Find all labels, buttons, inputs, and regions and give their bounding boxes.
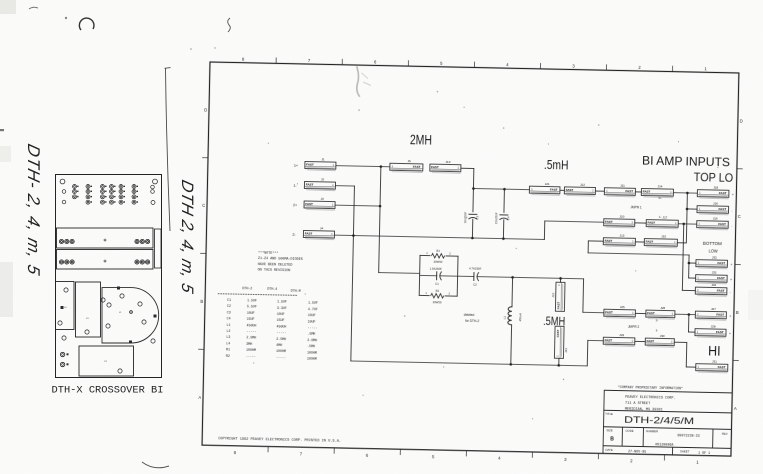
wire vertical + bus [379, 167, 381, 273]
wire [559, 278, 561, 282]
svg-text:+: + [732, 193, 734, 197]
connector J23 .5MH terminal [554, 326, 568, 358]
svg-text:2.5MH: 2.5MH [246, 336, 256, 340]
svg-text:-----: ----- [307, 326, 317, 330]
svg-text:BOTTOM: BOTTOM [703, 241, 722, 246]
svg-text:JMPR 2: JMPR 2 [628, 325, 640, 329]
svg-text:10U250F: 10U250F [463, 211, 467, 223]
svg-text:J10: J10 [445, 160, 450, 164]
svg-text:J4: J4 [320, 226, 324, 230]
svg-text:***NOTE***: ***NOTE*** [258, 251, 278, 256]
svg-text:DTH-2: DTH-2 [242, 286, 252, 290]
mounting holes [60, 179, 65, 184]
svg-text:FAST: FAST [717, 289, 725, 293]
svg-text:J29: J29 [619, 333, 624, 337]
svg-text:J20: J20 [619, 214, 624, 218]
svg-text:C2: C2 [227, 304, 231, 308]
svg-text:D: D [204, 107, 207, 112]
svg-text:FAST: FAST [305, 202, 313, 206]
pencil line [165, 68, 171, 231]
svg-text:-: - [730, 367, 731, 371]
svg-text:+: + [730, 278, 732, 282]
svg-text:450UH: 450UH [247, 323, 257, 327]
wire [582, 279, 585, 312]
connector J20 [604, 214, 635, 228]
svg-text:3.3UF: 3.3UF [277, 306, 287, 310]
svg-text:1+: 1+ [294, 164, 298, 168]
wire J14 to TOP LO [673, 192, 697, 194]
svg-text:L1: L1 [227, 323, 231, 327]
svg-text:J23: J23 [564, 348, 568, 353]
svg-text:FAST: FAST [605, 220, 613, 224]
svg-text:J12: J12 [580, 183, 585, 187]
svg-text:J27: J27 [711, 307, 716, 311]
wire [471, 219, 473, 238]
connector bottom low + [696, 255, 728, 269]
connector J11 [604, 183, 635, 197]
zone ticks and numbers [196, 56, 744, 461]
wire [510, 325, 513, 364]
svg-text:DTH-2/4/5/M: DTH-2/4/5/M [624, 415, 694, 427]
wire [689, 277, 696, 279]
junction [688, 262, 691, 265]
svg-text:FAST: FAST [718, 365, 726, 369]
svg-text:-----: ----- [276, 355, 286, 359]
svg-text:FAST: FAST [625, 189, 633, 193]
svg-text:FAST: FAST [306, 183, 314, 187]
wire node X to J21 [473, 188, 529, 189]
svg-text:DATE: DATE [605, 448, 612, 452]
wire 2- riser to J20 [543, 221, 545, 239]
svg-text:2+: 2+ [293, 203, 297, 207]
svg-text:J32: J32 [712, 255, 717, 259]
connector J16 top lo - [697, 201, 729, 215]
svg-text:10UF: 10UF [277, 312, 285, 316]
wire [682, 224, 683, 290]
svg-text:FAST: FAST [717, 261, 725, 265]
handwritten "DTH 2, 4, m, 5" (middle) [178, 178, 197, 296]
svg-text:B: B [200, 299, 203, 304]
svg-text:FAST: FAST [550, 188, 558, 192]
wire [560, 189, 564, 191]
svg-text:SHEET: SHEET [680, 450, 690, 454]
svg-text:2.5MH: 2.5MH [276, 337, 286, 341]
svg-text:L3: L3 [226, 335, 230, 339]
svg-text:MERIDIAN, MS 39301: MERIDIAN, MS 39301 [625, 408, 663, 413]
svg-text:DTH- 2, 4, m, 5: DTH- 2, 4, m, 5 [24, 142, 44, 278]
svg-text:+: + [729, 314, 731, 318]
wire [675, 313, 695, 315]
svg-text:+: + [729, 332, 731, 336]
wire 2+ join [335, 204, 380, 207]
wire [588, 240, 603, 242]
svg-text:-: - [730, 290, 731, 294]
svg-text:DTH-X CROSSOVER BI: DTH-X CROSSOVER BI [52, 385, 164, 397]
connector J21 [529, 182, 560, 196]
svg-text:4MH: 4MH [276, 343, 282, 347]
connector J12 [564, 182, 595, 196]
svg-text:L1: L1 [503, 315, 507, 319]
PCB layout drawing DTH-X crossover board [56, 175, 162, 378]
connector J3 input 2+ [304, 196, 335, 210]
wire [587, 241, 589, 253]
svg-text:4.7UF: 4.7UF [308, 307, 318, 311]
wire [502, 220, 504, 239]
svg-text:for DTH-2: for DTH-2 [465, 319, 479, 323]
pencil squiggle [228, 18, 231, 32]
svg-text:A: A [734, 406, 737, 411]
connector J4 input 2- [303, 226, 334, 240]
svg-text:J17: J17 [662, 215, 667, 219]
svg-text:20W50: 20W50 [433, 260, 442, 264]
svg-text:J28: J28 [711, 324, 716, 328]
svg-text:J19: J19 [713, 216, 718, 220]
svg-text:NUMBER: NUMBER [646, 429, 658, 433]
connector bottom low - [695, 283, 727, 297]
holes and pads [58, 288, 155, 373]
wire [503, 189, 505, 212]
svg-text:C3: C3 [227, 310, 231, 314]
connector J29 [603, 333, 635, 347]
svg-text:FAST: FAST [605, 239, 613, 243]
svg-text:20W50: 20W50 [433, 300, 442, 304]
svg-text:-----: ----- [276, 331, 286, 335]
svg-text:C1: C1 [227, 298, 231, 302]
svg-text:DTH 2, 4, m, 5: DTH 2, 4, m, 5 [178, 178, 197, 296]
svg-text:FAST: FAST [719, 191, 727, 195]
connector J22 .5MH terminal [551, 282, 565, 311]
svg-text:2MH: 2MH [410, 132, 432, 147]
svg-text:ON THIS REVISION: ON THIS REVISION [258, 269, 291, 274]
wire [635, 340, 645, 342]
svg-text:J22: J22 [551, 292, 555, 297]
svg-text:1.5UF: 1.5UF [247, 298, 257, 302]
svg-text:J26: J26 [660, 306, 665, 310]
svg-text:10UF: 10UF [308, 313, 316, 317]
wire [678, 223, 696, 225]
D-shaped driver outline [102, 288, 159, 343]
wire [588, 339, 603, 341]
terminal strip 1 [57, 228, 154, 248]
svg-text:FAST: FAST [306, 163, 314, 167]
svg-text:J25: J25 [620, 305, 625, 309]
svg-text:R2: R2 [226, 354, 230, 358]
svg-text:DTH-M: DTH-M [291, 289, 301, 293]
svg-text:D: D [740, 118, 743, 123]
junction [686, 192, 689, 195]
svg-text:J30: J30 [660, 334, 665, 338]
svg-text:J3: J3 [321, 197, 325, 201]
svg-text:15UF: 15UF [247, 317, 255, 321]
svg-text:FAST: FAST [719, 207, 727, 211]
svg-text:L4: L4 [226, 341, 230, 345]
svg-text:FAST: FAST [556, 329, 560, 337]
svg-text:J16: J16 [713, 201, 718, 205]
wire [674, 341, 686, 343]
svg-text:C4: C4 [227, 317, 231, 321]
connector J18 top lo + [697, 185, 729, 199]
svg-text:1.5UF: 1.5UF [277, 300, 287, 304]
svg-text:4.7A250F: 4.7A250F [469, 267, 482, 271]
svg-text:J15: J15 [661, 234, 666, 238]
wire [472, 188, 474, 211]
svg-text:C: C [202, 203, 205, 208]
svg-text:5.5UF: 5.5UF [247, 305, 257, 309]
component outline rects [56, 282, 75, 330]
connector J25 [604, 305, 636, 319]
svg-text:-: - [731, 224, 732, 228]
wire [635, 191, 641, 193]
svg-text:DTH-4: DTH-4 [267, 287, 277, 291]
junction [559, 277, 562, 280]
svg-text:FAST: FAST [647, 311, 655, 315]
wire [419, 294, 429, 296]
svg-text:C1: C1 [435, 282, 439, 286]
svg-text:1-: 1- [659, 215, 662, 219]
svg-text:FAST: FAST [557, 301, 561, 309]
svg-text:450uH: 450uH [518, 313, 522, 321]
svg-text:-----: ----- [246, 354, 256, 358]
wire 1+ to J9 [336, 166, 390, 167]
svg-text:10UF: 10UF [247, 311, 255, 315]
svg-text:2-: 2- [656, 318, 659, 322]
svg-text:FAST: FAST [716, 330, 724, 334]
wire [351, 186, 355, 361]
svg-text:FAST: FAST [718, 222, 726, 226]
wire [677, 242, 686, 244]
wire [687, 208, 697, 210]
junction [379, 205, 382, 208]
wire [477, 276, 512, 279]
board outline [56, 175, 162, 378]
svg-text:450UH: 450UH [276, 324, 286, 328]
junction [686, 208, 689, 211]
title block [603, 390, 732, 456]
svg-text:J34: J34 [711, 283, 716, 287]
connector J26 [646, 306, 675, 320]
svg-text:R1: R1 [226, 347, 230, 351]
svg-text:R1: R1 [436, 249, 440, 253]
wire 1- down [335, 185, 354, 187]
svg-text:R2: R2 [435, 289, 439, 293]
scan smudges [0, 0, 763, 320]
svg-text:FAST: FAST [566, 188, 574, 192]
wire [688, 255, 690, 278]
node v173 top [380, 165, 383, 168]
wire [635, 222, 646, 224]
svg-text:C4: C4 [506, 216, 510, 220]
svg-text:FAST: FAST [716, 313, 724, 317]
svg-text:HAVE BEEN DELETED: HAVE BEEN DELETED [258, 263, 293, 268]
svg-text:1 OF 1: 1 OF 1 [698, 452, 710, 456]
svg-text:J11: J11 [620, 183, 625, 187]
svg-text:FAST: FAST [717, 276, 725, 280]
wire [689, 262, 696, 264]
svg-text:99072238-33: 99072238-33 [677, 434, 699, 438]
svg-text:BI AMP INPUTS: BI AMP INPUTS [642, 153, 730, 169]
svg-text:FAST: FAST [605, 310, 613, 314]
connector J19 top lo - [697, 216, 729, 230]
sheet border frame [202, 62, 739, 456]
svg-text:-: - [731, 209, 732, 213]
svg-text:.5MH: .5MH [307, 332, 315, 336]
svg-text:J33: J33 [712, 270, 717, 274]
svg-text:FAST: FAST [305, 232, 313, 236]
svg-text:10OHM: 10OHM [246, 348, 256, 352]
svg-text:TITLE: TITLE [605, 412, 613, 416]
wire [420, 254, 430, 256]
wire [446, 255, 458, 257]
svg-text:15U250F: 15U250F [494, 212, 498, 224]
svg-text:711 A STREET: 711 A STREET [625, 402, 650, 407]
junction [509, 363, 512, 366]
svg-text:J31: J31 [712, 359, 717, 363]
svg-text:1.5UF: 1.5UF [308, 301, 318, 305]
connector J10 2MH terminal [430, 159, 461, 173]
svg-text:1-: 1- [655, 328, 658, 332]
svg-text:J14: J14 [658, 184, 663, 188]
svg-text:J1: J1 [321, 157, 325, 161]
svg-text:2.0MH: 2.0MH [307, 338, 317, 342]
wire 2- rail [334, 235, 544, 239]
svg-text:+: + [730, 263, 732, 267]
junction [471, 237, 474, 240]
wire [682, 289, 695, 291]
svg-text:27-NOV-95: 27-NOV-95 [628, 450, 646, 454]
svg-text:C: C [738, 214, 741, 219]
svg-text:#9120006A: #9120006A [655, 443, 674, 447]
wire [595, 190, 604, 192]
junction [502, 237, 505, 240]
wire [688, 331, 694, 333]
wire [513, 277, 584, 278]
wire [458, 275, 474, 277]
junction [688, 313, 691, 316]
svg-text:FAST: FAST [646, 240, 654, 244]
svg-text:REV: REV [722, 432, 728, 436]
junction [503, 188, 506, 191]
svg-text:10OHM: 10OHM [307, 357, 317, 361]
svg-text:.5MH: .5MH [307, 344, 315, 348]
connector J17 [646, 215, 678, 229]
wire [685, 342, 688, 366]
wire [583, 311, 604, 313]
svg-text:FAST: FAST [413, 165, 421, 169]
svg-text:FAST: FAST [646, 339, 654, 343]
node X [472, 187, 475, 190]
wire J10 to node X [461, 167, 474, 169]
wire [588, 253, 689, 255]
wire [445, 295, 457, 297]
connector J28 hi + [695, 324, 726, 338]
junction [511, 276, 514, 279]
svg-text:10OHM: 10OHM [307, 350, 317, 354]
svg-text:FAST: FAST [604, 338, 612, 342]
junction [557, 364, 560, 367]
wire [545, 221, 604, 222]
wire [351, 361, 587, 366]
connector J30 [645, 334, 674, 348]
svg-text:3+: 3+ [658, 196, 662, 200]
svg-text:B: B [610, 436, 614, 442]
wire [472, 169, 474, 189]
junction [682, 223, 685, 226]
svg-text:SIZE: SIZE [606, 428, 612, 432]
svg-text:JMPR 1: JMPR 1 [630, 205, 642, 209]
wire [687, 314, 689, 331]
svg-text:TOP LO: TOP LO [694, 170, 734, 185]
wire [511, 277, 514, 306]
connector J2 input 1- [304, 177, 335, 191]
wire to R network [379, 272, 420, 275]
svg-text:HI: HI [708, 342, 721, 358]
wire [558, 358, 560, 365]
svg-text:FAST: FAST [647, 221, 655, 225]
svg-text:.5mH: .5mH [544, 158, 569, 173]
svg-text:J18: J18 [713, 185, 718, 189]
wire [635, 312, 645, 314]
connector J9 2MH terminal [390, 159, 423, 173]
wire [686, 193, 687, 242]
junction [352, 234, 355, 237]
terminal pad grid [73, 185, 139, 205]
svg-text:L2: L2 [226, 329, 230, 333]
wire [418, 255, 421, 295]
connector J31 hi - [696, 359, 728, 373]
wire [456, 256, 459, 296]
svg-text:1.5A250F: 1.5A250F [430, 266, 443, 270]
svg-text:J13: J13 [620, 233, 625, 237]
svg-text:-----: ----- [246, 329, 256, 333]
svg-text:10UF: 10UF [308, 319, 316, 323]
svg-text:C2: C2 [473, 283, 477, 287]
svg-text:CODE: CODE [625, 429, 633, 433]
svg-text:FAST: FAST [643, 190, 651, 194]
wire [686, 366, 695, 368]
resistor R1 20W50 [431, 253, 444, 258]
svg-text:B: B [736, 310, 739, 315]
wire [420, 274, 437, 276]
wire [635, 241, 644, 243]
svg-text:deleted: deleted [464, 313, 475, 317]
svg-text:LOW: LOW [709, 248, 719, 253]
handwritten "DTH-2, 4, m, 5" (far left) [24, 142, 44, 278]
connector J14 [641, 184, 673, 198]
svg-text:C3: C3 [475, 215, 479, 219]
svg-text:15UF: 15UF [277, 318, 285, 322]
svg-text:10OHM: 10OHM [276, 349, 286, 353]
schematic sheet [196, 56, 744, 466]
wire [440, 275, 457, 277]
svg-text:J9: J9 [407, 159, 411, 163]
wire [586, 340, 589, 365]
connector J15 [644, 234, 677, 248]
svg-text:3MH: 3MH [246, 342, 252, 346]
svg-text:FAST: FAST [431, 165, 439, 169]
handwritten hook mark [79, 18, 94, 30]
connector J1 input 1+ [305, 157, 336, 171]
svg-text:J2: J2 [321, 177, 325, 181]
svg-text:J21: J21 [545, 182, 550, 186]
connector J27 hi + [695, 307, 726, 321]
terminal strip 2 [57, 250, 154, 270]
connector bottom low + [696, 270, 728, 284]
connector J13 [603, 233, 635, 247]
svg-text:A: A [198, 395, 201, 400]
